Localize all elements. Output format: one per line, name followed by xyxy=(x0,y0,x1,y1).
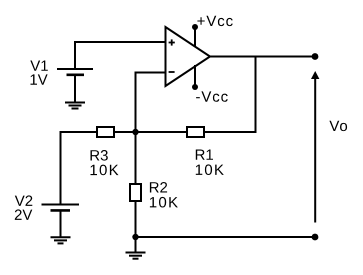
label R3 xyxy=(91,150,108,161)
wire V1 to op-amp non-inverting input xyxy=(75,42,166,70)
ground (below R2) xyxy=(126,237,146,259)
label R2 xyxy=(150,182,167,193)
resistor R2 xyxy=(130,184,141,201)
wire op-amp output xyxy=(210,56,315,58)
wire feedback xyxy=(205,57,256,133)
label 1V xyxy=(31,74,48,84)
arrow Vo xyxy=(311,71,319,223)
wire R3 to summing node xyxy=(115,131,136,133)
wire R2 to ground rail xyxy=(135,202,137,237)
battery V1 xyxy=(57,69,93,102)
label R1 xyxy=(196,150,213,160)
wire R1 to summing node xyxy=(136,131,187,133)
battery V2 xyxy=(42,205,80,238)
node ground junction xyxy=(132,234,138,240)
wire inverting input xyxy=(136,73,166,133)
ground (below V2) xyxy=(51,237,71,243)
resistor R1 xyxy=(187,127,204,137)
wire summing node to R2 xyxy=(135,132,137,184)
node bottom terminal xyxy=(312,234,319,241)
node output terminal xyxy=(312,53,319,60)
label -Vcc xyxy=(196,91,228,101)
label R2 value 10K xyxy=(150,197,178,208)
label Vo xyxy=(329,121,347,131)
label +Vcc xyxy=(197,16,232,26)
+Vcc terminal xyxy=(192,24,198,47)
wire R3 to V2 xyxy=(61,132,97,204)
ground (below V1) xyxy=(65,103,85,109)
node summing junction xyxy=(132,129,138,135)
label V1 xyxy=(30,61,48,71)
wire bottom rail xyxy=(136,236,316,238)
label R1 value 10K xyxy=(196,164,224,175)
-Vcc terminal xyxy=(192,65,198,90)
op-amp U1 xyxy=(166,27,211,86)
label V2 xyxy=(15,195,33,206)
resistor R3 xyxy=(97,127,114,137)
label 2V xyxy=(15,209,33,220)
label R3 value 10K xyxy=(91,165,119,176)
